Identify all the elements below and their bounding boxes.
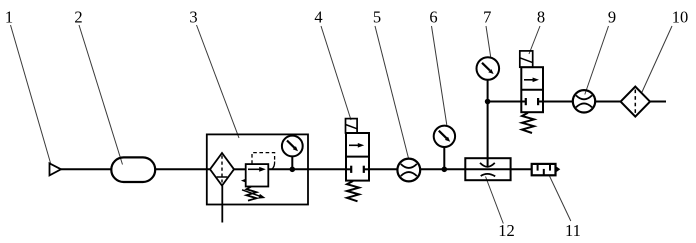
component 1: flow source triangle	[50, 163, 62, 175]
wire: diamond to regulator	[234, 168, 246, 170]
component 9: flow meter	[573, 90, 595, 112]
leader to component 8	[529, 26, 540, 54]
pilot dashed box of regulator	[252, 153, 275, 164]
wire: gauge 7 stem down into venturi 12	[487, 80, 489, 166]
wire: valve 8 to flow meter 9	[543, 101, 573, 103]
wire: gauge 3 stem	[291, 156, 293, 169]
regulator adjustment arrow	[242, 190, 260, 196]
leader to component 1	[11, 25, 51, 163]
leader to component 5	[375, 26, 409, 160]
leader to component 9	[585, 26, 609, 95]
regulator spring	[247, 186, 257, 200]
component 7: pressure gauge	[477, 57, 500, 80]
leader to component 12	[486, 177, 504, 224]
leader to component 7	[486, 26, 491, 57]
svg-text:9: 9	[608, 8, 616, 27]
leader to component 11	[550, 176, 571, 221]
node: junction branch 7	[485, 99, 491, 105]
wire: filter 10 output	[650, 101, 666, 103]
component 4: solenoid valve	[346, 119, 358, 133]
node: junction gauge 6	[442, 167, 448, 173]
wire: flow meter 5 to nozzle 11 through venturi 12	[420, 168, 531, 170]
spring of valve 4	[347, 181, 359, 201]
leader to component 10	[640, 26, 673, 98]
component 5: flow meter	[397, 159, 420, 182]
condensate drain line	[221, 186, 223, 223]
svg-text:7: 7	[483, 8, 491, 27]
svg-text:4: 4	[314, 8, 322, 27]
component 3: air service unit enclosure	[207, 134, 308, 204]
component 2: accumulator capsule	[111, 157, 155, 182]
leader to component 4	[321, 26, 351, 120]
wire: capsule to filter diamond	[155, 168, 210, 170]
gauge of unit 3	[282, 136, 303, 157]
relief arrowhead on regulator	[241, 179, 247, 183]
svg-text:11: 11	[565, 221, 581, 240]
wire: regulator to valve 4	[268, 168, 346, 170]
node: junction gauge 3	[290, 167, 296, 173]
leader to component 6	[432, 26, 447, 125]
spring of valve 8	[522, 113, 534, 133]
svg-text:10: 10	[672, 8, 689, 27]
svg-text:6: 6	[429, 8, 437, 27]
wire: gauge 6 stem	[443, 147, 445, 170]
component 8: solenoid valve	[520, 51, 533, 67]
pressure regulator square	[246, 164, 269, 186]
svg-text:8: 8	[537, 8, 545, 27]
component 10: filter diamond	[621, 87, 650, 117]
svg-text:3: 3	[189, 8, 197, 27]
leader to component 2	[79, 25, 123, 165]
leader to component 3	[197, 25, 240, 138]
svg-text:5: 5	[373, 8, 381, 27]
svg-text:2: 2	[74, 8, 82, 27]
wire: source triangle to capsule	[61, 168, 112, 170]
svg-text:12: 12	[498, 221, 515, 240]
component 12: venturi measuring section	[465, 158, 510, 180]
wire: branch junction to valve 8	[488, 101, 522, 103]
component 11: nozzle with labyrinth	[532, 164, 556, 175]
wire: flow meter 9 to filter 10	[595, 101, 621, 103]
filter diamond of unit 3	[210, 153, 234, 186]
svg-text:1: 1	[5, 8, 13, 27]
component 6: pressure gauge	[434, 126, 455, 147]
wire: valve 4 to flow meter 5	[369, 168, 398, 170]
